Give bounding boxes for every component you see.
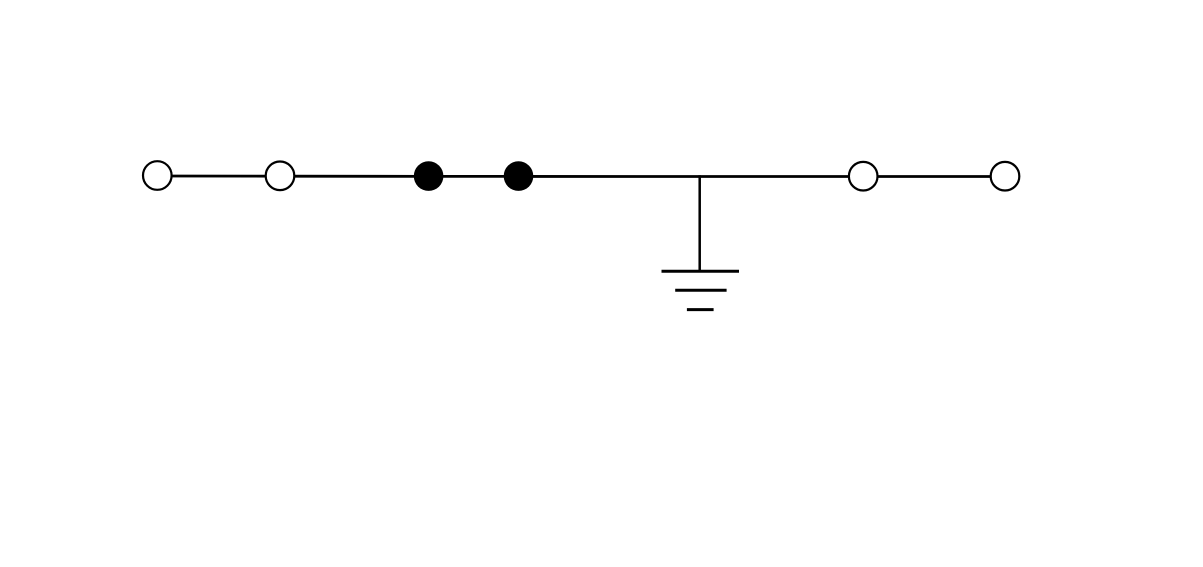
filled node dot 1 — [414, 161, 444, 191]
wire: segment between terminal 3 and terminal 4 — [863, 175, 1005, 178]
wire: vertical drop from junction to ground — [698, 175, 701, 272]
filled node dot 2 — [504, 161, 534, 191]
wire: segment between terminal 1 and terminal 2 — [157, 175, 280, 178]
open terminal circle 1 — [143, 161, 172, 190]
open terminal circle 4 — [991, 162, 1020, 191]
wire: segment between node dot 2 and terminal 3, passing ground junction — [519, 175, 864, 178]
wire: segment between node dot 1 and node dot 2 — [429, 175, 519, 178]
ground — [662, 271, 740, 309]
open terminal circle 3 — [849, 162, 878, 191]
open terminal circle 2 — [266, 162, 295, 191]
wire: segment between terminal 2 and node dot 1 — [280, 175, 429, 178]
